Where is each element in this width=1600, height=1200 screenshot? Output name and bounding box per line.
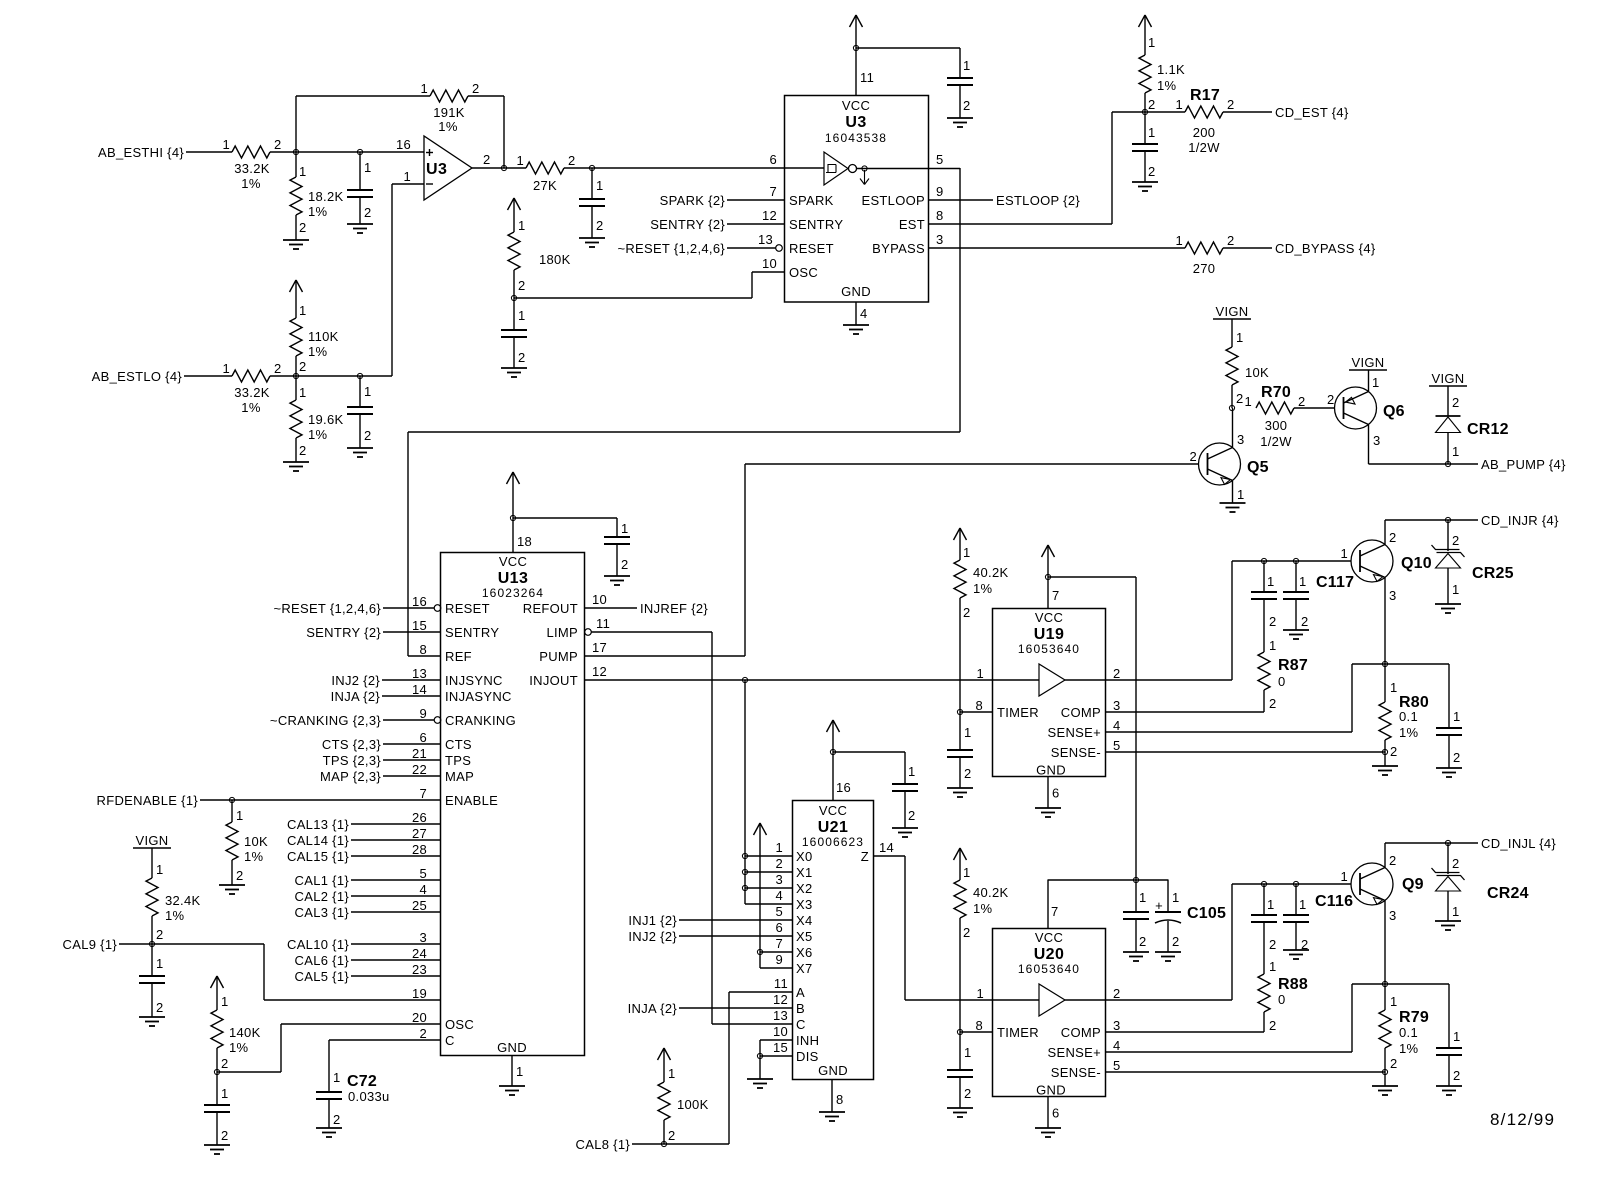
VCC arrow (U21) bbox=[827, 720, 852, 800]
svg-text:8: 8 bbox=[936, 208, 944, 223]
resistor 140K bbox=[211, 976, 261, 1072]
svg-text:2: 2 bbox=[1390, 744, 1398, 759]
svg-text:2: 2 bbox=[333, 1112, 341, 1127]
resistor 10K (Q5) bbox=[1226, 319, 1269, 408]
svg-text:3: 3 bbox=[1113, 1018, 1121, 1033]
node junction bbox=[501, 165, 506, 170]
wire bbox=[1111, 112, 1113, 224]
node junction bbox=[742, 869, 747, 874]
resistor 33.2K (lower) bbox=[222, 361, 281, 415]
wire CD_INJR bbox=[1385, 519, 1478, 521]
svg-text:CAL9 {1}: CAL9 {1} bbox=[63, 937, 118, 952]
VIGN (Q6) bbox=[1349, 355, 1387, 370]
ground bbox=[892, 828, 918, 837]
svg-text:~RESET {1,2,4,6}: ~RESET {1,2,4,6} bbox=[273, 601, 381, 616]
net label INJA (U21) bbox=[628, 1001, 678, 1016]
wire bbox=[564, 167, 785, 169]
svg-text:2: 2 bbox=[964, 766, 972, 781]
svg-text:X5: X5 bbox=[796, 929, 813, 944]
svg-text:SENSE+: SENSE+ bbox=[1048, 725, 1101, 740]
svg-text:27K: 27K bbox=[533, 178, 557, 193]
wire Q6 emitter bbox=[1369, 370, 1380, 392]
svg-text:1: 1 bbox=[1299, 897, 1307, 912]
svg-text:27: 27 bbox=[412, 826, 427, 841]
wire bbox=[711, 632, 713, 1024]
net label CAL3 bbox=[295, 905, 350, 920]
svg-text:AB_ESTLO {4}: AB_ESTLO {4} bbox=[92, 369, 183, 384]
svg-text:1: 1 bbox=[1148, 35, 1156, 50]
wire PUMP bbox=[585, 640, 746, 656]
label C116 bbox=[1315, 893, 1353, 910]
net label CAL9 bbox=[63, 937, 118, 952]
svg-text:1%: 1% bbox=[438, 119, 458, 134]
IC U20 16053640 bbox=[993, 929, 1106, 1098]
svg-text:CR12: CR12 bbox=[1467, 421, 1509, 438]
svg-text:VCC: VCC bbox=[819, 803, 847, 818]
svg-text:Q5: Q5 bbox=[1247, 459, 1269, 476]
net label AB_ESTLO bbox=[92, 369, 183, 384]
svg-text:3: 3 bbox=[419, 930, 427, 945]
svg-text:CAL6 {1}: CAL6 {1} bbox=[295, 953, 350, 968]
svg-text:1: 1 bbox=[516, 1064, 524, 1079]
node junction bbox=[1261, 881, 1266, 886]
wire bbox=[728, 992, 730, 1144]
node junction bbox=[1445, 840, 1450, 845]
svg-text:1: 1 bbox=[1139, 890, 1147, 905]
svg-text:2: 2 bbox=[1453, 750, 1461, 765]
svg-text:2: 2 bbox=[1298, 394, 1306, 409]
wire X2 bbox=[745, 887, 793, 889]
resistor 33.2K (upper) bbox=[222, 137, 281, 191]
svg-text:C72: C72 bbox=[347, 1073, 377, 1090]
node junction bbox=[957, 1029, 962, 1034]
svg-text:CR25: CR25 bbox=[1472, 565, 1514, 582]
svg-text:300: 300 bbox=[1265, 418, 1288, 433]
svg-text:2: 2 bbox=[1148, 97, 1156, 112]
wire bbox=[263, 944, 265, 1000]
svg-text:16023264: 16023264 bbox=[482, 586, 544, 600]
node junction bbox=[589, 165, 594, 170]
pin numbers U21 X bbox=[775, 840, 783, 967]
svg-text:2: 2 bbox=[419, 1026, 427, 1041]
svg-text:1%: 1% bbox=[1399, 725, 1419, 740]
resistor 32.4K bbox=[146, 848, 201, 944]
svg-text:16053640: 16053640 bbox=[1018, 642, 1080, 656]
svg-text:8: 8 bbox=[975, 1018, 983, 1033]
node junction bbox=[511, 295, 516, 300]
transistor Q10 bbox=[1351, 540, 1432, 582]
svg-text:19.6K: 19.6K bbox=[308, 412, 344, 427]
svg-text:19: 19 bbox=[412, 986, 427, 1001]
svg-text:1: 1 bbox=[1269, 959, 1277, 974]
node junction bbox=[293, 373, 298, 378]
svg-text:U13: U13 bbox=[498, 570, 529, 587]
svg-text:1%: 1% bbox=[165, 908, 185, 923]
wire bbox=[270, 375, 392, 377]
svg-text:SENTRY {2}: SENTRY {2} bbox=[650, 217, 725, 232]
svg-text:1: 1 bbox=[1237, 487, 1245, 502]
VIGN (CR12) bbox=[1429, 371, 1467, 386]
IC U13 16023264 bbox=[441, 553, 585, 1056]
svg-text:5: 5 bbox=[936, 152, 944, 167]
svg-text:1: 1 bbox=[1452, 444, 1460, 459]
svg-text:INJREF {2}: INJREF {2} bbox=[640, 601, 708, 616]
svg-text:2: 2 bbox=[1452, 533, 1460, 548]
svg-text:8: 8 bbox=[836, 1092, 844, 1107]
ground bbox=[347, 224, 373, 233]
svg-text:2: 2 bbox=[963, 98, 971, 113]
svg-text:8: 8 bbox=[419, 642, 427, 657]
ground bbox=[1132, 182, 1158, 191]
svg-text:3: 3 bbox=[1389, 908, 1397, 923]
wire Q10 emitter bbox=[1385, 578, 1397, 665]
wire VCC rail bbox=[1135, 577, 1137, 880]
ground bbox=[579, 238, 605, 247]
node junction bbox=[853, 45, 874, 85]
zener CR25 bbox=[1432, 520, 1514, 604]
wire bbox=[351, 946, 440, 961]
pull-up arrow (X inputs) bbox=[754, 823, 767, 968]
svg-text:CD_EST {4}: CD_EST {4} bbox=[1275, 105, 1349, 120]
svg-text:B: B bbox=[796, 1001, 805, 1016]
wire Q10 base bbox=[1232, 546, 1351, 561]
svg-text:4: 4 bbox=[1113, 718, 1121, 733]
pin 2 label bbox=[1327, 392, 1335, 407]
svg-text:180K: 180K bbox=[539, 252, 571, 267]
svg-text:4: 4 bbox=[860, 306, 868, 321]
svg-text:140K: 140K bbox=[229, 1025, 261, 1040]
svg-text:8/12/99: 8/12/99 bbox=[1490, 1110, 1555, 1129]
svg-text:1%: 1% bbox=[229, 1040, 249, 1055]
svg-text:0.1: 0.1 bbox=[1399, 709, 1418, 724]
svg-text:2: 2 bbox=[274, 361, 282, 376]
svg-text:1: 1 bbox=[775, 840, 783, 855]
ground bbox=[1035, 808, 1061, 817]
wire TIMER bbox=[960, 711, 993, 713]
resistor R87 bbox=[1258, 599, 1308, 712]
svg-text:GND: GND bbox=[841, 284, 871, 299]
node junction bbox=[1382, 1069, 1387, 1074]
ground bbox=[947, 118, 973, 127]
wire ESTLOOP bbox=[929, 184, 993, 200]
resistor R70 bbox=[1244, 384, 1305, 449]
svg-text:6: 6 bbox=[769, 152, 777, 167]
wire EST bbox=[929, 208, 1112, 224]
ground bbox=[819, 1112, 845, 1121]
svg-text:AB_PUMP {4}: AB_PUMP {4} bbox=[1481, 457, 1566, 472]
svg-text:13: 13 bbox=[758, 232, 773, 247]
node junction bbox=[229, 797, 234, 802]
capacitor C105a bbox=[1123, 880, 1149, 952]
svg-text:X3: X3 bbox=[796, 897, 813, 912]
svg-text:40.2K: 40.2K bbox=[973, 565, 1009, 580]
net label CAL14 bbox=[287, 833, 349, 848]
svg-text:1: 1 bbox=[621, 521, 629, 536]
svg-text:1: 1 bbox=[364, 384, 372, 399]
capacitor (CAL9) bbox=[139, 944, 165, 1017]
svg-text:10: 10 bbox=[762, 256, 777, 271]
wire bbox=[1048, 576, 1136, 578]
wire bbox=[383, 618, 440, 633]
wire TIMER bbox=[960, 1031, 993, 1033]
svg-text:2: 2 bbox=[1189, 449, 1197, 464]
svg-text:1: 1 bbox=[1340, 869, 1348, 884]
svg-text:CR24: CR24 bbox=[1487, 885, 1529, 902]
svg-text:1: 1 bbox=[1267, 574, 1275, 589]
svg-text:1: 1 bbox=[1175, 233, 1183, 248]
svg-text:33.2K: 33.2K bbox=[234, 161, 270, 176]
label C117 bbox=[1316, 574, 1354, 591]
svg-text:R79: R79 bbox=[1399, 1009, 1429, 1026]
svg-text:1: 1 bbox=[222, 137, 230, 152]
GND pin U20 bbox=[1048, 1097, 1060, 1129]
svg-text:EST: EST bbox=[899, 217, 925, 232]
net label ~CRANKING bbox=[270, 713, 381, 728]
svg-text:28: 28 bbox=[412, 842, 427, 857]
svg-text:1%: 1% bbox=[973, 901, 993, 916]
svg-text:14: 14 bbox=[879, 840, 894, 855]
svg-text:2: 2 bbox=[908, 808, 916, 823]
svg-text:9: 9 bbox=[419, 706, 427, 721]
svg-text:~CRANKING {2,3}: ~CRANKING {2,3} bbox=[270, 713, 381, 728]
wire bbox=[408, 431, 960, 433]
svg-text:SENTRY: SENTRY bbox=[789, 217, 843, 232]
svg-text:SENSE-: SENSE- bbox=[1051, 1065, 1101, 1080]
svg-text:5: 5 bbox=[1113, 738, 1121, 753]
svg-text:X2: X2 bbox=[796, 881, 813, 896]
capacitor C72 bbox=[316, 1040, 390, 1128]
resistor R17 bbox=[1175, 87, 1234, 155]
wire bbox=[1223, 111, 1272, 113]
svg-text:ENABLE: ENABLE bbox=[445, 793, 498, 808]
wire bbox=[351, 962, 440, 977]
VCC arrow (U19) bbox=[1042, 545, 1060, 608]
capacitor (ESTHI) bbox=[347, 152, 373, 224]
svg-text:2: 2 bbox=[1327, 392, 1335, 407]
capacitor (U3 VCC) bbox=[947, 48, 973, 118]
resistor R80 bbox=[1379, 664, 1429, 759]
svg-text:1%: 1% bbox=[308, 204, 328, 219]
wire bbox=[856, 47, 960, 49]
svg-text:SENTRY: SENTRY bbox=[445, 625, 499, 640]
net label AB_PUMP bbox=[1481, 457, 1566, 472]
node junction bbox=[957, 709, 962, 714]
net label CAL10 bbox=[287, 937, 349, 952]
svg-text:2: 2 bbox=[274, 137, 282, 152]
wire bbox=[186, 151, 232, 153]
wire X3 bbox=[745, 903, 793, 905]
svg-text:1%: 1% bbox=[1157, 78, 1177, 93]
GND pin U19 bbox=[1048, 777, 1060, 809]
svg-text:1: 1 bbox=[156, 862, 164, 877]
wire bbox=[383, 746, 440, 761]
svg-text:1: 1 bbox=[596, 178, 604, 193]
svg-text:MAP {2,3}: MAP {2,3} bbox=[320, 769, 381, 784]
svg-text:2: 2 bbox=[156, 927, 164, 942]
transistor Q9 bbox=[1351, 863, 1424, 905]
svg-text:5: 5 bbox=[1113, 1058, 1121, 1073]
svg-text:VCC: VCC bbox=[1035, 610, 1063, 625]
wire bbox=[1369, 463, 1479, 465]
svg-text:2: 2 bbox=[1148, 164, 1156, 179]
svg-text:12: 12 bbox=[592, 664, 607, 679]
svg-text:33.2K: 33.2K bbox=[234, 385, 270, 400]
node junction bbox=[742, 853, 747, 858]
pin 6 label bbox=[769, 152, 777, 167]
svg-text:1: 1 bbox=[1175, 97, 1183, 112]
svg-text:CAL15 {1}: CAL15 {1} bbox=[287, 849, 349, 864]
capacitor C105b (polarized) bbox=[1155, 880, 1226, 952]
svg-text:RFDENABLE {1}: RFDENABLE {1} bbox=[97, 793, 199, 808]
ground bbox=[219, 885, 245, 894]
svg-text:1: 1 bbox=[299, 164, 307, 179]
svg-text:2: 2 bbox=[596, 218, 604, 233]
wire B bbox=[679, 1007, 793, 1009]
ground bbox=[316, 1128, 342, 1137]
capacitor (TIMER U19) bbox=[947, 712, 973, 788]
svg-text:1: 1 bbox=[1453, 709, 1461, 724]
wire pin5 bbox=[929, 152, 960, 169]
node junction bbox=[1293, 558, 1298, 563]
svg-text:2: 2 bbox=[299, 443, 307, 458]
node junction bbox=[293, 149, 298, 154]
svg-text:1: 1 bbox=[1244, 394, 1252, 409]
ground bbox=[1435, 604, 1461, 613]
svg-text:2: 2 bbox=[518, 350, 526, 365]
svg-text:2: 2 bbox=[1389, 853, 1397, 868]
svg-text:INJ2 {2}: INJ2 {2} bbox=[628, 929, 677, 944]
svg-text:GND: GND bbox=[1036, 1083, 1066, 1098]
svg-text:2: 2 bbox=[775, 856, 783, 871]
wire U20 pin1 bbox=[905, 999, 993, 1001]
svg-text:1: 1 bbox=[156, 956, 164, 971]
svg-text:COMP: COMP bbox=[1061, 1025, 1101, 1040]
svg-text:1%: 1% bbox=[241, 400, 261, 415]
svg-text:1: 1 bbox=[1390, 994, 1398, 1009]
wire bbox=[382, 666, 440, 681]
wire Z bbox=[874, 840, 906, 856]
wire bbox=[1048, 879, 1169, 881]
net label INJA bbox=[331, 689, 381, 704]
wire bbox=[712, 1023, 793, 1025]
svg-text:2: 2 bbox=[1389, 530, 1397, 545]
wire bbox=[351, 810, 440, 825]
wire bbox=[351, 842, 440, 857]
svg-text:DIS: DIS bbox=[796, 1049, 819, 1064]
pin 9 bubble bbox=[434, 717, 441, 724]
wire U20 out bbox=[1106, 999, 1233, 1001]
svg-text:7: 7 bbox=[419, 786, 427, 801]
svg-text:2: 2 bbox=[364, 205, 372, 220]
node junction bbox=[1293, 881, 1298, 886]
ground bbox=[1372, 766, 1398, 775]
wire Q9 emitter bbox=[1385, 901, 1397, 985]
net label SPARK bbox=[660, 193, 726, 208]
svg-text:RESET: RESET bbox=[445, 601, 490, 616]
svg-text:6: 6 bbox=[775, 920, 783, 935]
net label CD_INJR bbox=[1481, 513, 1559, 528]
svg-text:1: 1 bbox=[964, 1045, 972, 1060]
wire bbox=[351, 866, 440, 881]
svg-text:ESTLOOP {2}: ESTLOOP {2} bbox=[996, 193, 1080, 208]
capacitor (U13 VCC) bbox=[604, 518, 630, 576]
wire bbox=[727, 232, 776, 248]
svg-text:Q10: Q10 bbox=[1401, 555, 1432, 572]
op-amp U3 bbox=[396, 136, 472, 200]
svg-text:1: 1 bbox=[299, 303, 307, 318]
pin 10 label bbox=[762, 256, 777, 271]
ground bbox=[283, 462, 309, 471]
svg-text:17: 17 bbox=[592, 640, 607, 655]
ground bbox=[347, 448, 373, 457]
svg-text:2: 2 bbox=[1269, 1018, 1277, 1033]
svg-text:0.033u: 0.033u bbox=[348, 1089, 390, 1104]
svg-text:2: 2 bbox=[1172, 934, 1180, 949]
svg-text:1: 1 bbox=[1452, 582, 1460, 597]
wire Q5 emitter bbox=[1233, 481, 1245, 504]
IC U3 16043538 bbox=[785, 96, 929, 303]
wire SENSE- U19 bbox=[1106, 752, 1386, 766]
svg-text:2: 2 bbox=[1227, 233, 1235, 248]
capacitor (U21 VCC) bbox=[892, 752, 918, 828]
svg-text:24: 24 bbox=[412, 946, 427, 961]
svg-text:VCC: VCC bbox=[1035, 930, 1063, 945]
svg-text:1%: 1% bbox=[308, 344, 328, 359]
net label CTS bbox=[322, 737, 381, 752]
svg-text:11: 11 bbox=[774, 976, 788, 991]
resistor 100K bbox=[658, 1048, 709, 1144]
svg-text:1: 1 bbox=[1267, 897, 1275, 912]
net label INJ2 bbox=[331, 673, 380, 688]
net label CAL6 bbox=[295, 953, 350, 968]
transistor Q6 bbox=[1335, 387, 1405, 429]
GND pin U13 bbox=[512, 1055, 524, 1086]
svg-text:GND: GND bbox=[497, 1040, 527, 1055]
svg-text:2: 2 bbox=[1113, 666, 1121, 681]
ground bbox=[1436, 1086, 1462, 1095]
svg-text:SENTRY {2}: SENTRY {2} bbox=[306, 625, 381, 640]
wire BYPASS bbox=[929, 232, 1185, 248]
net label CAL13 bbox=[287, 817, 349, 832]
svg-text:INH: INH bbox=[796, 1033, 819, 1048]
svg-text:3: 3 bbox=[1237, 432, 1245, 447]
svg-text:VCC: VCC bbox=[842, 98, 870, 113]
net label CAL5 bbox=[295, 969, 350, 984]
svg-text:1: 1 bbox=[1236, 330, 1244, 345]
svg-text:2: 2 bbox=[236, 868, 244, 883]
node junction bbox=[1382, 749, 1387, 754]
svg-text:2: 2 bbox=[1390, 1056, 1398, 1071]
wire bbox=[632, 1143, 729, 1145]
svg-text:CRANKING: CRANKING bbox=[445, 713, 516, 728]
svg-text:1/2W: 1/2W bbox=[1188, 140, 1220, 155]
svg-text:1: 1 bbox=[299, 385, 307, 400]
svg-text:INJSYNC: INJSYNC bbox=[445, 673, 503, 688]
svg-text:1: 1 bbox=[976, 666, 984, 681]
svg-text:COMP: COMP bbox=[1061, 705, 1101, 720]
svg-text:1: 1 bbox=[516, 153, 524, 168]
svg-text:12: 12 bbox=[762, 208, 777, 223]
wire COMP U19 bbox=[1106, 711, 1265, 713]
svg-text:CAL1 {1}: CAL1 {1} bbox=[295, 873, 350, 888]
svg-text:1%: 1% bbox=[244, 849, 264, 864]
wire bbox=[383, 730, 440, 745]
svg-text:2: 2 bbox=[1236, 391, 1244, 406]
svg-text:10K: 10K bbox=[1245, 365, 1269, 380]
wire U19 out bbox=[1106, 679, 1233, 681]
wire REFOUT bbox=[585, 592, 638, 608]
svg-text:9: 9 bbox=[936, 184, 944, 199]
